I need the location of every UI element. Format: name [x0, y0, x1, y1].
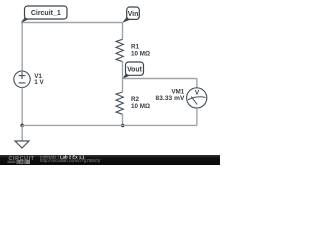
wire left vertical (top to V1)	[21, 23, 23, 72]
ground	[15, 125, 29, 148]
junction dot R2 bottom	[121, 124, 125, 128]
wire V1 bottom to ground junction	[21, 88, 23, 126]
node label Vout	[122, 62, 143, 79]
wire R2 to bottom junction	[122, 114, 124, 125]
node label Circuit_1	[21, 6, 67, 23]
label V1 value	[34, 73, 44, 86]
wire Vout horizontal to voltmeter	[123, 78, 198, 80]
wire Vout to R2	[122, 79, 124, 93]
junction dot left bottom	[20, 124, 24, 128]
svg-text:Vin: Vin	[128, 11, 139, 18]
resistor R1	[116, 39, 123, 61]
label R2 value	[131, 96, 150, 110]
footer bar	[0, 155, 220, 165]
wire R1 to Vout	[122, 62, 124, 79]
wire Vin to R1	[122, 23, 124, 40]
svg-text:83.33 mV: 83.33 mV	[156, 95, 186, 102]
label R1 value	[131, 43, 150, 57]
svg-text:R2: R2	[131, 96, 140, 103]
svg-text:10 MΩ: 10 MΩ	[131, 103, 150, 110]
node label Vin	[122, 7, 139, 23]
voltage source V1	[14, 71, 30, 87]
wire bottom horizontal	[22, 124, 197, 126]
svg-text:http://circuitlab.com/c/7g7855: http://circuitlab.com/c/7g78557jr	[40, 158, 101, 163]
footer credit text	[40, 155, 101, 164]
svg-text:V: V	[195, 89, 200, 96]
wire voltmeter top	[196, 79, 198, 88]
svg-text:LAB: LAB	[17, 159, 26, 164]
svg-text:Circuit_1: Circuit_1	[31, 10, 61, 17]
wire top horizontal (node A to Vin)	[22, 22, 123, 24]
svg-text:R1: R1	[131, 43, 140, 50]
voltmeter VM1	[187, 88, 207, 108]
footer logo CIRCUIT LAB	[8, 156, 35, 164]
label VM1 value	[156, 89, 186, 103]
wire voltmeter bottom	[196, 108, 198, 125]
svg-text:1 V: 1 V	[34, 79, 44, 86]
resistor R2	[116, 92, 123, 114]
svg-text:10 MΩ: 10 MΩ	[131, 51, 150, 58]
svg-text:Vout: Vout	[127, 66, 143, 73]
